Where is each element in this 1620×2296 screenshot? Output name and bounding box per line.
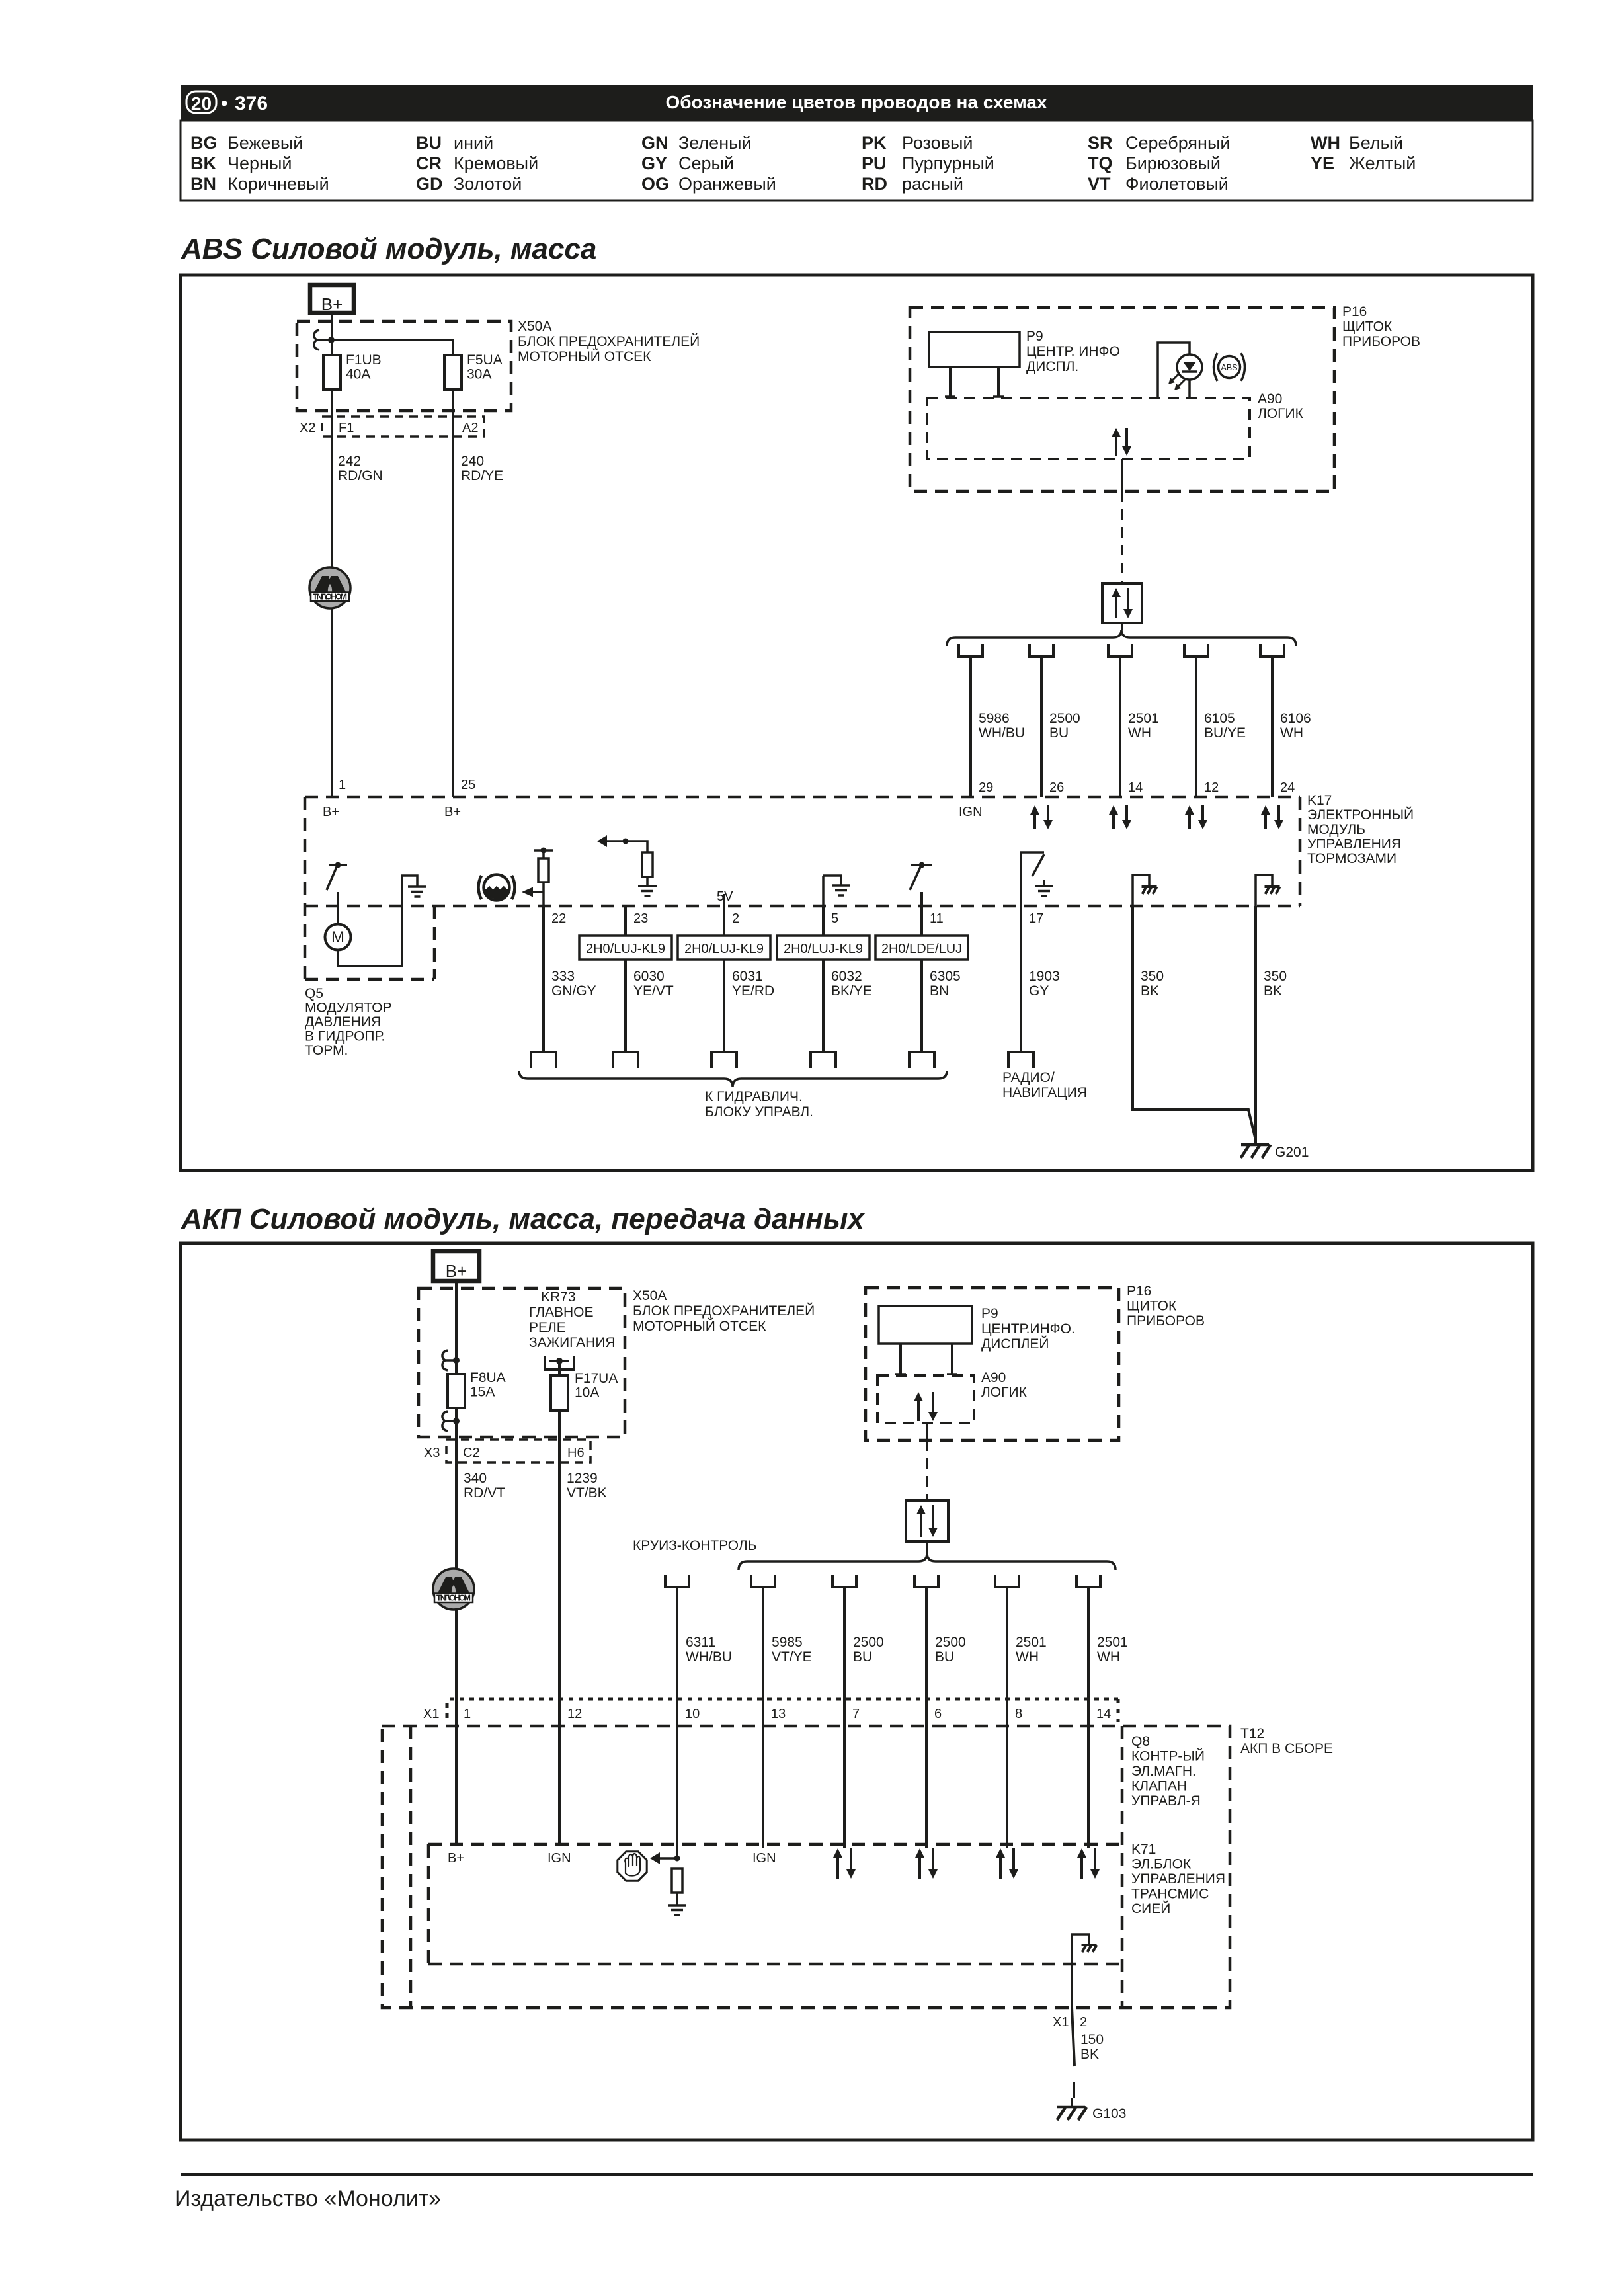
svg-text:МОТОРНЫЙ ОТСЕК: МОТОРНЫЙ ОТСЕК — [633, 1318, 766, 1334]
svg-text:БЛОК ПРЕДОХРАНИТЕЛЕЙ: БЛОК ПРЕДОХРАНИТЕЛЕЙ — [633, 1303, 815, 1319]
connector strip X3 pins C2 H6 — [446, 1440, 590, 1463]
svg-text:ЦЕНТР. ИНФО: ЦЕНТР. ИНФО — [1026, 344, 1120, 359]
relay contact KR73 — [545, 1356, 574, 1370]
chassis ground symbol wire 38 — [1256, 875, 1272, 906]
svg-text:2H0/LDE/LUJ: 2H0/LDE/LUJ — [881, 942, 962, 956]
svg-text:B+: B+ — [323, 805, 339, 819]
svg-text:Зеленый: Зеленый — [678, 133, 752, 153]
svg-text:Белый: Белый — [1349, 133, 1403, 153]
svg-text:H6: H6 — [567, 1446, 585, 1460]
svg-text:Бирюзовый: Бирюзовый — [1125, 153, 1221, 173]
svg-text:BU: BU — [853, 1649, 872, 1664]
svg-text:K17: K17 — [1307, 793, 1332, 808]
svg-text:Фиолетовый: Фиолетовый — [1125, 174, 1229, 194]
wire 2500 BU connector — [914, 1575, 938, 1587]
wire 5985 VT/YE — [762, 1587, 764, 1699]
svg-text:11: 11 — [930, 911, 944, 926]
svg-text:Обозначение цветов проводов на: Обозначение цветов проводов на схемах — [665, 92, 1047, 112]
svg-text:6305: 6305 — [930, 969, 961, 984]
svg-text:10A: 10A — [575, 1385, 599, 1401]
svg-text:Кремовый: Кремовый — [454, 153, 538, 173]
svg-text:ТРАНСМИС: ТРАНСМИС — [1131, 1887, 1209, 1902]
K17 data arrows pin 14 — [1112, 815, 1115, 829]
svg-text:A90: A90 — [981, 1370, 1006, 1385]
wire 6032 BK/YE — [822, 906, 825, 1052]
fuse block X50A (engine bay) dashed box — [297, 321, 511, 411]
svg-text:350: 350 — [1141, 969, 1164, 984]
svg-text:29: 29 — [979, 780, 993, 795]
svg-text:RD: RD — [862, 174, 887, 194]
svg-text:иний: иний — [454, 133, 493, 153]
svg-text:7: 7 — [852, 1707, 860, 1721]
wire 6032 end connector — [811, 1052, 836, 1068]
svg-text:6: 6 — [934, 1707, 942, 1721]
svg-text:АКП Силовой модуль, масса, пе: АКП Силовой модуль, масса, передача данн… — [181, 1203, 865, 1235]
svg-text:T12: T12 — [1240, 1726, 1264, 1741]
serial data wire A90 to DLC 2 — [926, 1423, 928, 1440]
earth ground wire 23 — [638, 885, 657, 887]
svg-text:10: 10 — [685, 1707, 700, 1721]
arrow wire 22 to fluid telltale — [533, 891, 544, 893]
power node B+ (battery feed) 2 — [433, 1251, 479, 1281]
svg-text:БЛОК ПРЕДОХРАНИТЕЛЕЙ: БЛОК ПРЕДОХРАНИТЕЛЕЙ — [518, 333, 700, 349]
header bar — [181, 85, 1533, 120]
svg-text:2501: 2501 — [1016, 1635, 1047, 1650]
svg-text:BU/YE: BU/YE — [1204, 725, 1246, 741]
svg-text:A90: A90 — [1258, 391, 1282, 407]
svg-text:Бежевый: Бежевый — [227, 133, 303, 153]
svg-text:30A: 30A — [467, 367, 491, 382]
wire M to ground — [338, 876, 417, 966]
svg-text:СИЕЙ: СИЕЙ — [1131, 1901, 1170, 1916]
wire 350 BK pin 38 — [1254, 906, 1257, 1145]
page number badge 20 — [186, 91, 216, 113]
svg-text:ТОРМОЗАМИ: ТОРМОЗАМИ — [1307, 851, 1397, 866]
svg-text:20: 20 — [191, 93, 212, 114]
svg-text:OG: OG — [641, 174, 669, 194]
svg-text:X50A: X50A — [633, 1288, 667, 1303]
svg-text:IGN: IGN — [752, 1851, 776, 1865]
svg-text:B+: B+ — [446, 1261, 467, 1281]
svg-text:150: 150 — [1080, 2032, 1104, 2047]
svg-text:ЛОГИК: ЛОГИК — [981, 1385, 1028, 1400]
svg-text:Черный: Черный — [227, 153, 292, 173]
pump motor M (Q5) — [325, 924, 351, 950]
svg-text:14: 14 — [1096, 1707, 1111, 1721]
svg-text:VT/YE: VT/YE — [772, 1649, 812, 1664]
svg-text:2H0/LUJ-KL9: 2H0/LUJ-KL9 — [684, 942, 764, 956]
wire 1903 end connector — [1008, 1052, 1033, 1068]
TCM K71 dashed box — [428, 1843, 1122, 1846]
svg-text:B+: B+ — [321, 294, 343, 314]
wires through X1 — [455, 1699, 458, 1844]
svg-text:ЭЛ.МАГН.: ЭЛ.МАГН. — [1131, 1764, 1196, 1779]
svg-text:X1: X1 — [423, 1707, 439, 1721]
wire 2500 BU — [1040, 657, 1043, 797]
svg-text:GY: GY — [1029, 983, 1049, 999]
ground G103 — [1071, 2098, 1073, 2107]
earth ground wire 10 — [668, 1904, 686, 1906]
chassis ground inside K71 — [1072, 1934, 1089, 2008]
Monolit watermark logo on wire 340 — [433, 1569, 474, 1610]
wire 2501 WH connector — [1108, 644, 1132, 657]
svg-text:•: • — [221, 93, 228, 114]
svg-text:G201: G201 — [1275, 1145, 1309, 1160]
wire 1239 VT/BK — [558, 1411, 561, 1699]
svg-text:АКП В СБОРЕ: АКП В СБОРЕ — [1240, 1741, 1333, 1756]
svg-text:B+: B+ — [444, 805, 461, 819]
wire 2501 WH connector — [995, 1575, 1019, 1587]
hand-off telltale icon — [618, 1852, 647, 1881]
wire 2501 WH — [1006, 1587, 1008, 1699]
harness option box 2H0/LDE/LUJ — [875, 936, 968, 960]
svg-text:К ГИДРАВЛИЧ.: К ГИДРАВЛИЧ. — [705, 1089, 803, 1104]
harness option box 2H0/LUJ-KL9 — [579, 936, 672, 960]
svg-text:РАДИО/: РАДИО/ — [1002, 1070, 1055, 1085]
svg-text:25: 25 — [461, 778, 475, 792]
svg-text:8: 8 — [1015, 1707, 1022, 1721]
svg-text:Оранжевый: Оранжевый — [678, 174, 776, 194]
harness option box 2H0/LUJ-KL9 — [678, 936, 770, 960]
svg-text:BG: BG — [190, 133, 218, 153]
serial data wire A90 to DLC — [1121, 459, 1123, 491]
svg-text:ЦЕНТР.ИНФО.: ЦЕНТР.ИНФО. — [981, 1321, 1075, 1336]
svg-text:КОНТР-ЫЙ: КОНТР-ЫЙ — [1131, 1748, 1205, 1764]
svg-text:BN: BN — [930, 983, 949, 999]
T12 inner harness dashed edge — [409, 1726, 413, 2008]
svg-text:2H0/LUJ-KL9: 2H0/LUJ-KL9 — [784, 942, 863, 956]
wire 6305 end connector — [909, 1052, 934, 1068]
svg-text:МОТОРНЫЙ ОТСЕК: МОТОРНЫЙ ОТСЕК — [518, 348, 651, 364]
wire 2500 BU connector — [1030, 644, 1053, 657]
svg-text:BU: BU — [935, 1649, 954, 1664]
svg-text:6030: 6030 — [633, 969, 665, 984]
svg-text:17: 17 — [1029, 911, 1043, 926]
A90 serial data arrows 2 — [917, 1401, 920, 1421]
svg-text:WH/BU: WH/BU — [979, 725, 1025, 741]
wire 5985 VT/YE connector — [751, 1575, 775, 1587]
svg-text:40A: 40A — [346, 367, 370, 382]
svg-text:WH/BU: WH/BU — [686, 1649, 732, 1664]
svg-text:5986: 5986 — [979, 711, 1010, 726]
wire 6106 WH connector — [1260, 644, 1284, 657]
fuse F5UA 30A — [444, 355, 462, 389]
svg-text:6032: 6032 — [831, 969, 862, 984]
svg-text:WH: WH — [1128, 725, 1151, 741]
svg-text:ДИСПЛ.: ДИСПЛ. — [1026, 359, 1078, 374]
K71 data arrows pin 6 — [918, 1858, 921, 1879]
svg-text:ЩИТОК: ЩИТОК — [1127, 1299, 1177, 1314]
resistor to ground wire 10 — [672, 1869, 682, 1893]
svg-text:X2: X2 — [300, 421, 315, 435]
partition dashed edge Q8 — [1121, 1726, 1124, 2008]
svg-text:12: 12 — [567, 1707, 582, 1721]
svg-text:GY: GY — [641, 153, 667, 173]
wire 6031 end connector — [711, 1052, 737, 1068]
wire 6305 BN — [920, 906, 923, 1052]
svg-text:F17UA: F17UA — [575, 1371, 618, 1386]
svg-text:VT: VT — [1088, 174, 1111, 194]
svg-text:BU: BU — [1049, 725, 1069, 741]
svg-text:WH: WH — [1280, 725, 1303, 741]
svg-text:ЭЛЕКТРОННЫЙ: ЭЛЕКТРОННЫЙ — [1307, 807, 1414, 823]
fuse F8UA 15A — [448, 1374, 465, 1408]
wire 333 GN/GY — [542, 906, 545, 1052]
svg-text:6311: 6311 — [686, 1635, 715, 1650]
svg-text:BK: BK — [1264, 983, 1282, 999]
connector strip X2 pins F1 A2 — [322, 417, 484, 436]
svg-text:P16: P16 — [1127, 1284, 1151, 1299]
svg-text:6106: 6106 — [1280, 711, 1311, 726]
wire 5986 WH/BU connector — [959, 644, 983, 657]
svg-text:Пурпурный: Пурпурный — [902, 153, 994, 173]
svg-text:VT/BK: VT/BK — [567, 1485, 607, 1500]
logic module A90 dashed box 2 — [877, 1375, 974, 1423]
wire 2500 BU — [925, 1587, 928, 1699]
svg-text:PU: PU — [862, 153, 887, 173]
switch symbol wire 11 — [911, 864, 932, 866]
svg-text:F1UB: F1UB — [346, 352, 382, 368]
svg-text:BK: BK — [1080, 2047, 1099, 2062]
P9 legs to A90 2 — [899, 1344, 902, 1374]
fuse block X50A dashed box 2 — [419, 1288, 625, 1437]
junction node B+ bus — [328, 337, 335, 343]
svg-text:IGN: IGN — [959, 805, 983, 819]
wire 6031 YE/RD — [723, 906, 725, 1052]
connector hook below F8UA — [442, 1411, 448, 1431]
svg-text:P9: P9 — [1026, 329, 1043, 344]
svg-text:Q8: Q8 — [1131, 1734, 1150, 1749]
svg-text:МОНОЛИТ: МОНОЛИТ — [436, 1594, 471, 1603]
chassis ground symbol wire 13 — [1133, 875, 1149, 906]
pump relay switch inside K17 — [329, 864, 347, 866]
svg-text:WH: WH — [1097, 1649, 1120, 1664]
svg-text:2H0/LUJ-KL9: 2H0/LUJ-KL9 — [586, 942, 665, 956]
instrument cluster P16 dashed box — [910, 307, 1334, 491]
svg-text:В ГИДРОПР.: В ГИДРОПР. — [305, 1029, 385, 1044]
svg-text:МОНОЛИТ: МОНОЛИТ — [313, 593, 347, 602]
svg-text:ABS: ABS — [1221, 363, 1237, 372]
svg-text:X3: X3 — [424, 1446, 440, 1460]
connector hook at B+ junction — [314, 330, 319, 350]
svg-text:13: 13 — [771, 1707, 786, 1721]
fuse F17UA 10A — [558, 1361, 561, 1375]
svg-text:G103: G103 — [1092, 2106, 1126, 2121]
svg-text:340: 340 — [464, 1471, 487, 1486]
svg-text:333: 333 — [551, 969, 575, 984]
svg-text:ЗАЖИГАНИЯ: ЗАЖИГАНИЯ — [529, 1335, 616, 1350]
bus brace to K17 wires — [947, 630, 1296, 646]
svg-text:Коричневый: Коричневый — [227, 174, 329, 194]
ground G201 — [1241, 1143, 1269, 1147]
wire 333 end connector — [531, 1052, 556, 1068]
wire 2501 WH connector — [1076, 1575, 1100, 1587]
ABS warning lamp (LED) — [1158, 343, 1190, 398]
ABS telltale icon — [1219, 356, 1240, 378]
brake ECU K17 dashed box — [305, 796, 1300, 799]
wire 2500 BU connector — [832, 1575, 856, 1587]
svg-text:24: 24 — [1280, 780, 1295, 795]
Monolit watermark logo on wire 242 — [309, 567, 350, 608]
logic module A90 dashed box — [927, 398, 1250, 459]
svg-text:WH: WH — [1016, 1649, 1039, 1664]
svg-text:6105: 6105 — [1204, 711, 1235, 726]
diagram 1 frame — [181, 275, 1533, 1170]
bus brace data wires — [739, 1553, 1115, 1570]
svg-text:X50A: X50A — [518, 319, 551, 334]
wire 6105 BU/YE — [1195, 657, 1197, 797]
svg-text:240: 240 — [461, 454, 484, 469]
svg-text:M: M — [331, 928, 344, 946]
terminal bar wire 22 — [534, 849, 553, 852]
svg-text:ЩИТОК: ЩИТОК — [1342, 319, 1393, 335]
svg-text:КЛАПАН: КЛАПАН — [1131, 1779, 1187, 1794]
svg-text:F1: F1 — [339, 421, 354, 435]
wire 6311 WH/BU connector — [665, 1575, 689, 1587]
svg-text:Серебряный: Серебряный — [1125, 133, 1230, 153]
svg-text:WH: WH — [1311, 133, 1340, 153]
svg-text:A2: A2 — [462, 421, 478, 435]
svg-text:ГЛАВНОЕ: ГЛАВНОЕ — [529, 1305, 594, 1320]
wire 2500 BU — [843, 1587, 846, 1699]
svg-text:1: 1 — [464, 1707, 471, 1721]
svg-text:2500: 2500 — [1049, 711, 1080, 726]
brake fluid level telltale icon — [485, 886, 508, 899]
svg-text:МОДУЛЯТОР: МОДУЛЯТОР — [305, 1001, 392, 1016]
center info display P9 — [929, 332, 1020, 367]
svg-text:УПРАВЛ-Я: УПРАВЛ-Я — [1131, 1793, 1201, 1809]
K17 data arrows pin 26 — [1033, 815, 1036, 829]
svg-text:GD: GD — [416, 174, 443, 194]
svg-text:2501: 2501 — [1128, 711, 1159, 726]
arrow wire 23 signal out — [606, 840, 626, 842]
svg-text:BK: BK — [190, 153, 216, 173]
diagram 2 frame — [181, 1243, 1533, 2140]
wire 1903 GY — [1020, 906, 1022, 1052]
svg-text:6031: 6031 — [732, 969, 763, 984]
svg-text:RD/YE: RD/YE — [461, 468, 503, 483]
K71 data arrows pin 7 — [836, 1858, 839, 1879]
svg-text:Серый: Серый — [678, 153, 734, 173]
svg-text:PK: PK — [862, 133, 887, 153]
wire B+ into fuse block — [455, 1281, 458, 1374]
earth ground symbol wire 5 — [823, 876, 841, 885]
svg-text:УПРАВЛЕНИЯ: УПРАВЛЕНИЯ — [1131, 1871, 1225, 1887]
svg-text:2500: 2500 — [935, 1635, 966, 1650]
svg-text:KR73: KR73 — [541, 1290, 576, 1305]
resistor on wire 22 — [542, 850, 545, 858]
K17 data arrows pin 12 — [1188, 815, 1191, 829]
svg-text:ЭЛ.БЛОК: ЭЛ.БЛОК — [1131, 1857, 1192, 1872]
svg-text:B+: B+ — [448, 1851, 464, 1865]
earth ground inside K17 — [408, 885, 426, 888]
wire 6030 YE/VT — [624, 906, 627, 1052]
svg-text:P9: P9 — [981, 1306, 998, 1321]
svg-text:ДАВЛЕНИЯ: ДАВЛЕНИЯ — [305, 1014, 381, 1030]
svg-text:ТОРМ.: ТОРМ. — [305, 1043, 348, 1058]
P9 legs to A90 — [949, 367, 952, 397]
svg-text:Золотой: Золотой — [454, 174, 522, 194]
wire 350 BK pin 13 — [1133, 906, 1256, 1140]
svg-text:12: 12 — [1204, 780, 1219, 795]
footer rule — [181, 2173, 1533, 2176]
wire 240 RD/YE — [452, 389, 454, 797]
resistor to ground on wire 23 — [626, 841, 647, 852]
svg-text:КРУИЗ-КОНТРОЛЬ: КРУИЗ-КОНТРОЛЬ — [633, 1538, 756, 1553]
node on wire 23 — [623, 839, 629, 844]
svg-text:Издательство «Монолит»: Издательство «Монолит» — [175, 2186, 441, 2211]
svg-text:2: 2 — [732, 911, 739, 926]
center info display P9 2 — [879, 1306, 972, 1344]
svg-text:GN/GY: GN/GY — [551, 983, 596, 999]
svg-text:CR: CR — [416, 153, 442, 173]
svg-text:242: 242 — [338, 454, 361, 469]
svg-text:ПРИБОРОВ: ПРИБОРОВ — [1342, 334, 1420, 349]
wire 242 RD/GN — [331, 389, 333, 797]
svg-text:F8UA: F8UA — [470, 1370, 506, 1385]
svg-text:K71: K71 — [1131, 1842, 1156, 1857]
wire colour legend box — [181, 120, 1533, 200]
svg-text:14: 14 — [1128, 780, 1143, 795]
svg-text:YE: YE — [1311, 153, 1334, 173]
svg-text:22: 22 — [551, 911, 566, 926]
svg-text:YE/RD: YE/RD — [732, 983, 774, 999]
svg-text:Q5: Q5 — [305, 986, 323, 1001]
K17 data arrows pin 24 — [1264, 815, 1267, 829]
svg-text:НАВИГАЦИЯ: НАВИГАЦИЯ — [1002, 1085, 1087, 1100]
brace to hydraulic control unit — [519, 1071, 947, 1087]
harness option box 2H0/LUJ-KL9 — [777, 936, 870, 960]
power node B+ (battery feed) — [310, 285, 354, 313]
svg-text:ПРИБОРОВ: ПРИБОРОВ — [1127, 1313, 1205, 1329]
svg-text:1903: 1903 — [1029, 969, 1060, 984]
wire 5986 WH/BU — [969, 657, 972, 797]
svg-text:RD/GN: RD/GN — [338, 468, 383, 483]
svg-text:1239: 1239 — [567, 1471, 598, 1486]
svg-text:GN: GN — [641, 133, 668, 153]
svg-text:МОДУЛЬ: МОДУЛЬ — [1307, 822, 1365, 837]
svg-text:IGN: IGN — [547, 1851, 571, 1865]
svg-text:ABS Силовой модуль, масса: ABS Силовой модуль, масса — [181, 233, 596, 265]
svg-text:1: 1 — [339, 778, 346, 792]
data link connector box 2 — [906, 1500, 948, 1541]
svg-text:376: 376 — [235, 93, 268, 114]
connector strip X1 (dotted) — [450, 1698, 1118, 1701]
svg-text:Желтый: Желтый — [1349, 153, 1416, 173]
svg-text:26: 26 — [1049, 780, 1064, 795]
wire B+ to fuse F1UB — [331, 313, 333, 355]
svg-text:X1: X1 — [1053, 2015, 1069, 2029]
wire 6106 WH — [1271, 657, 1274, 797]
K71 data arrows pin 8 — [999, 1858, 1002, 1879]
svg-text:ДИСПЛЕЙ: ДИСПЛЕЙ — [981, 1336, 1049, 1352]
svg-text:F5UA: F5UA — [467, 352, 503, 368]
svg-text:ЛОГИК: ЛОГИК — [1258, 406, 1304, 421]
svg-text:BK: BK — [1141, 983, 1159, 999]
instrument cluster P16 dashed box 2 — [866, 1288, 1119, 1440]
wire junction to fuse F5UA — [331, 340, 453, 355]
svg-text:BN: BN — [190, 174, 216, 194]
svg-text:BU: BU — [416, 133, 442, 153]
svg-text:C2: C2 — [463, 1446, 480, 1460]
svg-text:расный: расный — [902, 174, 963, 194]
svg-text:RD/VT: RD/VT — [464, 1485, 505, 1500]
svg-text:2501: 2501 — [1097, 1635, 1128, 1650]
svg-text:5: 5 — [831, 911, 838, 926]
svg-text:SR: SR — [1088, 133, 1113, 153]
svg-text:УПРАВЛЕНИЯ: УПРАВЛЕНИЯ — [1307, 837, 1401, 852]
transmission assembly T12 dashed box — [382, 1726, 1230, 2008]
